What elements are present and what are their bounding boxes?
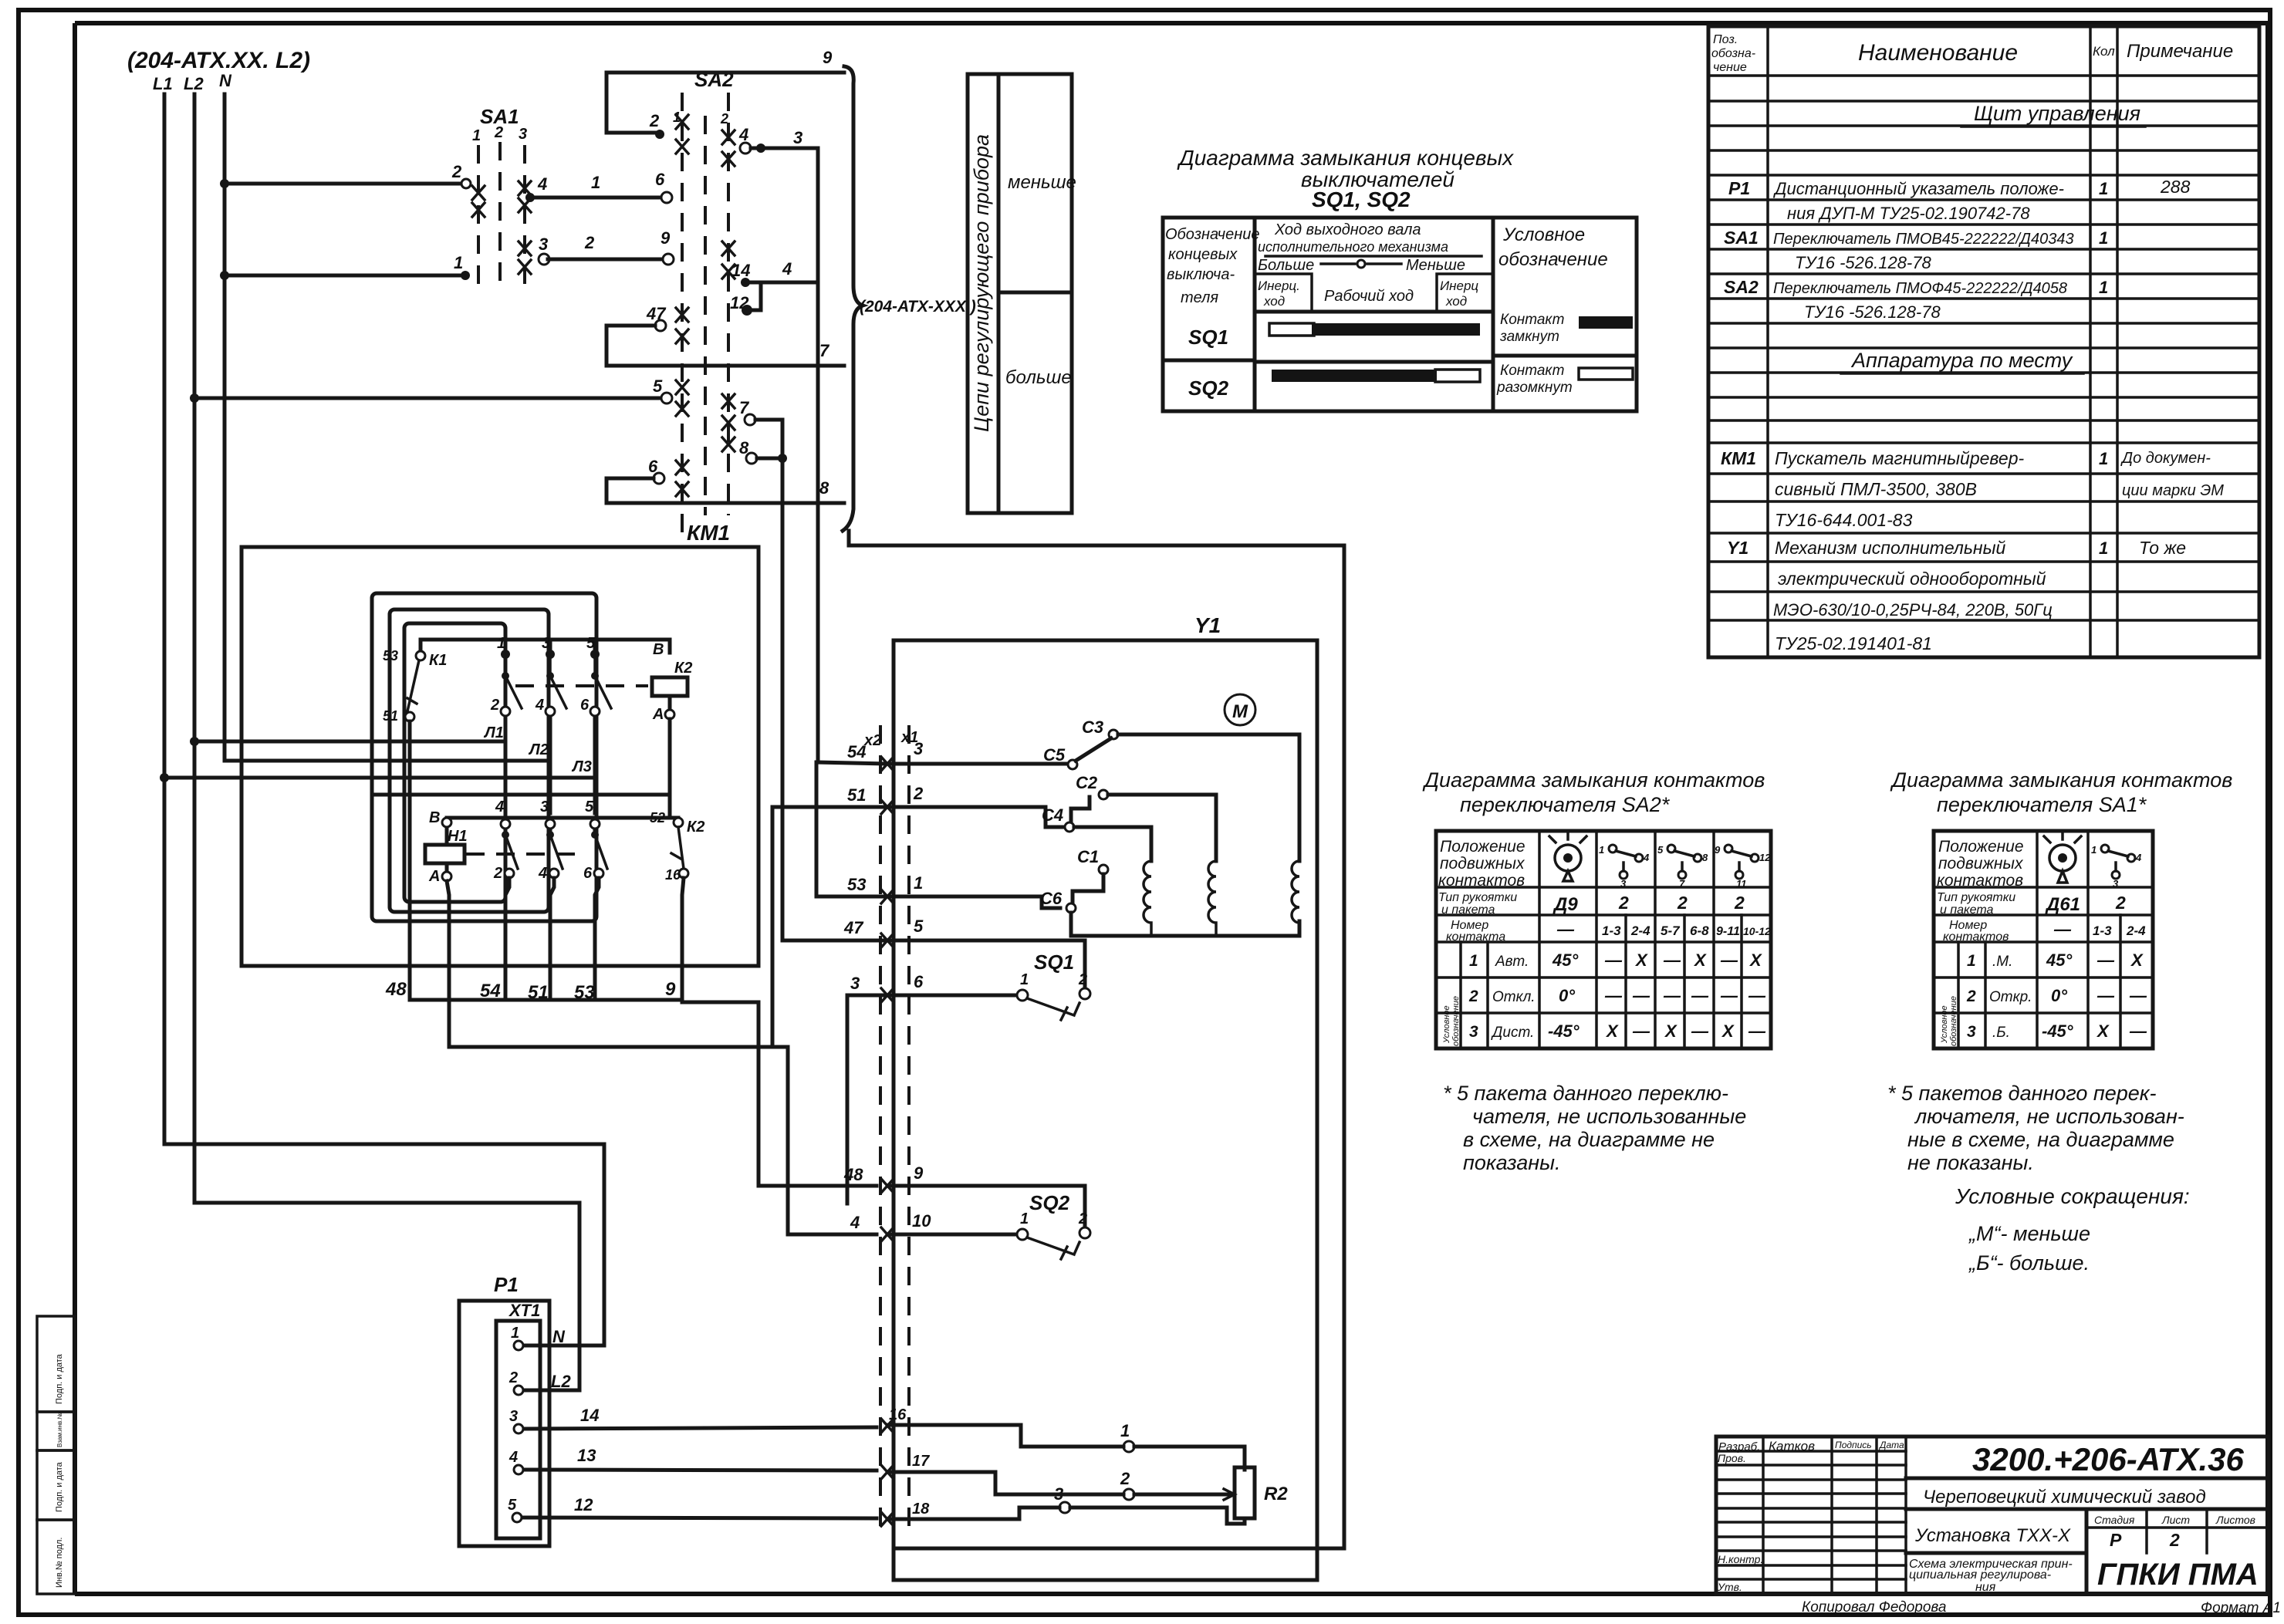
wire 14 from P1:3	[524, 1406, 1123, 1447]
svg-text:С1: С1	[1077, 847, 1099, 866]
svg-text:Больше: Больше	[1258, 257, 1314, 274]
svg-text:3: 3	[1469, 1023, 1478, 1041]
svg-text:2: 2	[451, 162, 462, 181]
terminal X1 row 48|9	[843, 1163, 1085, 1228]
svg-text:„Б“- больше.: „Б“- больше.	[1968, 1251, 2090, 1275]
svg-text:показаны.: показаны.	[1463, 1151, 1561, 1174]
note under SA2 table	[1443, 1082, 1746, 1174]
wire L1 feeder	[153, 74, 604, 1345]
svg-text:—: —	[1720, 950, 1738, 970]
motor terminal C6	[1040, 889, 1299, 936]
svg-text:1: 1	[472, 127, 481, 144]
svg-text:Условное: Условное	[1502, 225, 1585, 245]
svg-text:Диаграмма замыкания контакто: Диаграмма замыкания контактов	[1422, 768, 1765, 792]
svg-text:2: 2	[490, 697, 499, 714]
svg-text:переключателя SA2*: переключателя SA2*	[1460, 793, 1671, 816]
svg-text:контактов: контактов	[1937, 872, 2023, 890]
svg-text:2: 2	[2169, 1530, 2180, 1550]
svg-text:Тип рукоятки: Тип рукоятки	[1438, 891, 1517, 904]
svg-text:2-4: 2-4	[1630, 923, 1650, 938]
svg-text:С5: С5	[1043, 745, 1066, 765]
wire upper A column to lower bus	[372, 719, 670, 818]
terminal X1 row 53|1	[816, 762, 1060, 908]
svg-text:2: 2	[1078, 1210, 1087, 1227]
svg-text:2: 2	[1468, 988, 1478, 1005]
motor terminal C5	[1043, 738, 1111, 769]
wire L2 feeder	[184, 74, 579, 1390]
svg-text:7: 7	[1679, 878, 1685, 890]
svg-text:—: —	[1720, 986, 1738, 1005]
svg-text:подвижных: подвижных	[1938, 855, 2024, 873]
svg-text:51: 51	[847, 785, 866, 805]
svg-text:Контакт: Контакт	[1500, 363, 1564, 379]
svg-text:1: 1	[1120, 1421, 1130, 1440]
svg-text:1-3: 1-3	[2093, 923, 2112, 938]
svg-text:больше: больше	[1005, 367, 1072, 388]
svg-text:3: 3	[1967, 1023, 1976, 1041]
motor terminal C1	[1073, 847, 1108, 903]
svg-text:сивный ПМЛ-3500, 380В: сивный ПМЛ-3500, 380В	[1775, 479, 1977, 499]
svg-text:3: 3	[509, 1408, 518, 1425]
contact closure diagram table SA2	[1422, 768, 1771, 1048]
svg-text:лючателя, не использован-: лючателя, не использован-	[1914, 1105, 2184, 1128]
resistor R2	[1054, 1421, 1288, 1524]
svg-text:не показаны.: не показаны.	[1907, 1151, 2034, 1174]
svg-text:—: —	[1632, 1021, 1650, 1041]
auxiliary contact K2 (lower right)	[650, 810, 704, 883]
svg-text:и пакета: и пакета	[1940, 903, 1993, 917]
svg-text:2-4: 2-4	[2126, 923, 2146, 938]
svg-text:Н.контр.: Н.контр.	[1718, 1553, 1763, 1565]
wire node 7 line to bracket	[606, 341, 844, 366]
svg-text:3: 3	[542, 635, 550, 652]
svg-text:в схеме, на диаграмме не: в схеме, на диаграмме не	[1463, 1128, 1715, 1151]
svg-text:Х: Х	[2096, 1021, 2110, 1041]
svg-text:1: 1	[914, 873, 923, 893]
svg-text:Поз.: Поз.	[1713, 33, 1738, 46]
svg-text:—: —	[2096, 950, 2115, 970]
svg-text:5: 5	[508, 1497, 517, 1514]
svg-text:А: А	[652, 706, 664, 723]
wire 54 route	[449, 1047, 877, 1234]
bracket (204-ATX-XXX)	[843, 66, 976, 531]
svg-text:исполнительного механизма: исполнительного механизма	[1258, 239, 1448, 255]
svg-text:5-7: 5-7	[1661, 923, 1681, 938]
wire net 8 long run to Y1 bottom	[849, 531, 1344, 1548]
motor winding 1	[1144, 861, 1216, 936]
svg-text:8: 8	[819, 478, 829, 498]
svg-text:.Б.: .Б.	[1992, 1025, 2010, 1041]
svg-text:L1: L1	[153, 74, 173, 93]
wire L2 phase into KM1 (node Л2)	[225, 718, 550, 813]
left margin stamp boxes	[37, 1316, 75, 1594]
svg-text:5: 5	[1657, 844, 1664, 856]
svg-text:18: 18	[912, 1501, 930, 1518]
svg-text:1: 1	[1020, 1210, 1029, 1227]
svg-text:Утв.: Утв.	[1717, 1581, 1742, 1593]
wire node 47 contact loop	[606, 304, 667, 366]
svg-text:Установка ТХХ-Х: Установка ТХХ-Х	[1914, 1525, 2071, 1546]
svg-text:Механизм исполнительный: Механизм исполнительный	[1775, 538, 2006, 558]
svg-text:Подп. и дата: Подп. и дата	[55, 1461, 64, 1512]
svg-text:2: 2	[1677, 893, 1688, 913]
svg-text:12: 12	[574, 1495, 593, 1514]
svg-text:КМ1: КМ1	[687, 521, 730, 545]
svg-text:ния: ния	[1975, 1581, 1996, 1594]
svg-text:1: 1	[1020, 971, 1029, 988]
svg-text:Тип рукоятки: Тип рукоятки	[1937, 891, 2015, 904]
svg-text:—: —	[2053, 920, 2072, 939]
motor terminal C3	[1082, 717, 1299, 861]
svg-text:В: В	[653, 641, 664, 658]
wire node 6 contact loop	[606, 457, 664, 503]
svg-text:SQ2: SQ2	[1029, 1191, 1070, 1214]
svg-text:Условное: Условное	[1940, 1005, 1949, 1044]
svg-text:6: 6	[914, 972, 924, 991]
svg-text:„М“- меньше: „М“- меньше	[1968, 1222, 2090, 1245]
wire 13 from P1:4	[524, 1446, 1123, 1494]
svg-text:Листов: Листов	[2215, 1514, 2255, 1526]
svg-text:ход: ход	[1445, 294, 1467, 309]
regulator circuits box (Цепи регулирующего прибора)	[968, 74, 1076, 513]
svg-text:С6: С6	[1040, 889, 1063, 908]
svg-text:4: 4	[535, 697, 544, 714]
svg-text:Л3: Л3	[571, 758, 592, 775]
svg-text:2: 2	[494, 124, 503, 141]
svg-text:Положение: Положение	[1938, 838, 2024, 856]
svg-text:12: 12	[1759, 852, 1771, 863]
dashed linkage upper group	[515, 684, 648, 687]
svg-text:* 5 пакетов данного перек-: * 5 пакетов данного перек-	[1887, 1082, 2157, 1105]
svg-text:10-12: 10-12	[1743, 925, 1771, 937]
svg-text:9-11: 9-11	[1716, 925, 1740, 938]
svg-text:Y1: Y1	[1194, 613, 1221, 637]
svg-text:SA1: SA1	[1724, 228, 1759, 248]
coil K2 (upper right)	[652, 641, 692, 723]
svg-text:5: 5	[653, 376, 663, 396]
svg-text:(204-АТХ-ХХХ ): (204-АТХ-ХХХ )	[860, 298, 976, 316]
svg-text:1: 1	[591, 173, 600, 192]
svg-text:ХТ1: ХТ1	[508, 1301, 540, 1320]
svg-text:Условные сокращения:: Условные сокращения:	[1955, 1184, 2190, 1208]
svg-text:1: 1	[2099, 539, 2108, 558]
svg-text:Х: Х	[1721, 1021, 1735, 1041]
svg-text:14: 14	[580, 1406, 599, 1425]
footer annotations	[1802, 1599, 2281, 1616]
svg-text:—: —	[1663, 950, 1681, 970]
svg-text:Подпись: Подпись	[1835, 1440, 1872, 1450]
svg-text:Наименование: Наименование	[1858, 40, 2018, 66]
svg-text:16: 16	[889, 1406, 907, 1423]
svg-text:Примечание: Примечание	[2127, 41, 2233, 62]
wire SA1 pin4 to SA2 pin6	[525, 170, 672, 203]
svg-text:7: 7	[819, 341, 830, 360]
svg-text:контакта: контакта	[1446, 930, 1505, 944]
svg-text:L2: L2	[551, 1372, 571, 1391]
motor winding 2	[1208, 861, 1216, 936]
svg-text:4: 4	[2135, 852, 2142, 863]
wire K2 column down	[682, 878, 684, 1002]
svg-text:Цепи регулирующего прибора: Цепи регулирующего прибора	[970, 134, 993, 432]
svg-text:10: 10	[912, 1211, 931, 1231]
svg-text:1: 1	[2099, 228, 2108, 248]
svg-text:Пров.: Пров.	[1718, 1452, 1746, 1464]
svg-text:6: 6	[655, 170, 665, 189]
svg-text:разомкнут: разомкнут	[1496, 380, 1573, 396]
svg-text:Условное: Условное	[1442, 1005, 1451, 1044]
limit switch SQ2	[1017, 1191, 1090, 1259]
svg-text:контактов: контактов	[1438, 872, 1525, 890]
svg-text:Х: Х	[2130, 950, 2144, 970]
svg-text:16: 16	[665, 867, 681, 883]
svg-text:Х: Х	[1664, 1021, 1678, 1041]
svg-text:С3: С3	[1082, 717, 1103, 737]
svg-text:К2: К2	[687, 819, 704, 836]
svg-text:теля: теля	[1181, 289, 1218, 306]
svg-text:1: 1	[2091, 844, 2096, 856]
svg-text:4: 4	[782, 259, 792, 279]
svg-text:Лист: Лист	[2161, 1514, 2190, 1526]
main contact poles lower group	[493, 798, 607, 1000]
svg-text:Х: Х	[1605, 1021, 1619, 1041]
wire node 4 from SA2 pins 14/12	[730, 259, 818, 316]
svg-text:3: 3	[793, 128, 802, 147]
svg-text:До докумен-: До докумен-	[2120, 450, 2211, 467]
svg-text:Подп. и дата: Подп. и дата	[55, 1353, 64, 1404]
svg-text:Переключатель ПМОФ45-222222/Д4: Переключатель ПМОФ45-222222/Д4058	[1773, 280, 2067, 297]
svg-text:ТУ16 -526.128-78: ТУ16 -526.128-78	[1795, 253, 1931, 272]
svg-text:чение: чение	[1713, 61, 1747, 74]
wire 9 route to terminal X1:9	[682, 1002, 877, 1186]
svg-text:—: —	[1556, 920, 1575, 939]
svg-text:ции марки ЭМ: ции марки ЭМ	[2122, 482, 2224, 499]
switch SA2 dashed contact columns	[673, 68, 735, 540]
svg-text:4: 4	[495, 798, 504, 815]
svg-text:4: 4	[538, 865, 547, 882]
svg-text:и пакета: и пакета	[1441, 903, 1495, 917]
contact closure diagram table SA1	[1890, 768, 2232, 1048]
svg-text:К1: К1	[429, 652, 447, 669]
svg-text:51: 51	[383, 708, 398, 724]
svg-text:А: А	[428, 868, 440, 885]
svg-text:8: 8	[1702, 852, 1708, 863]
svg-text:—: —	[2129, 1021, 2147, 1041]
legend Условные сокращения	[1955, 1184, 2190, 1275]
svg-text:ципиальная регулирова-: ципиальная регулирова-	[1909, 1568, 2051, 1582]
svg-text:SQ1: SQ1	[1034, 950, 1074, 974]
svg-text:9: 9	[914, 1163, 924, 1183]
svg-text:2: 2	[913, 784, 924, 803]
svg-text:обозначение: обозначение	[1498, 249, 1608, 270]
wire L3 phase into KM1 (node Л3)	[164, 718, 595, 813]
wire 51 route	[771, 807, 775, 1047]
svg-text:х2: х2	[863, 732, 881, 749]
svg-text:.М.: .М.	[1992, 954, 2012, 970]
wire node 3 from SA2 pin4 down column	[738, 125, 818, 762]
junction dots on feeders	[220, 179, 229, 188]
svg-text:48: 48	[843, 1165, 863, 1184]
svg-text:1: 1	[1599, 844, 1604, 856]
svg-text:1: 1	[497, 635, 505, 652]
svg-text:9: 9	[661, 228, 671, 248]
svg-text:Y1: Y1	[1727, 538, 1748, 558]
svg-text:* 5 пакета данного переклю-: * 5 пакета данного переклю-	[1443, 1082, 1728, 1105]
svg-text:Пускатель магнитныйревер-: Пускатель магнитныйревер-	[1775, 448, 2025, 468]
svg-text:5: 5	[585, 798, 594, 815]
wire K1 column down to bus 48	[410, 721, 417, 1000]
svg-text:3: 3	[914, 739, 923, 758]
svg-text:То же: То же	[2139, 538, 2186, 558]
svg-text:Авт.: Авт.	[1495, 954, 1529, 970]
svg-text:54: 54	[847, 742, 866, 761]
svg-text:2: 2	[1078, 971, 1087, 988]
svg-text:3: 3	[850, 974, 860, 993]
KM1 routing loop A	[372, 593, 596, 921]
svg-text:9: 9	[1715, 844, 1721, 856]
svg-text:1: 1	[1469, 952, 1478, 970]
svg-text:1: 1	[511, 1325, 519, 1342]
svg-text:3: 3	[540, 798, 549, 815]
svg-text:Формат А1: Формат А1	[2201, 1600, 2281, 1616]
svg-text:Откл.: Откл.	[1492, 989, 1536, 1005]
KM1 upper bus	[421, 640, 670, 653]
svg-text:—: —	[2129, 986, 2147, 1005]
svg-text:концевых: концевых	[1168, 246, 1238, 263]
svg-text:45°: 45°	[1552, 950, 1578, 970]
svg-text:2: 2	[508, 1369, 518, 1386]
svg-text:3: 3	[519, 126, 527, 143]
svg-text:2: 2	[1120, 1469, 1130, 1488]
svg-text:Дата: Дата	[1878, 1440, 1904, 1450]
svg-text:Переключатель ПМОВ45-222222/Д4: Переключатель ПМОВ45-222222/Д40343	[1773, 231, 2074, 248]
svg-text:Р: Р	[2110, 1530, 2122, 1550]
svg-text:Х: Х	[1693, 950, 1707, 970]
svg-text:1: 1	[2099, 449, 2108, 468]
svg-text:Инерц: Инерц	[1440, 279, 1478, 293]
svg-text:4: 4	[850, 1213, 860, 1232]
svg-text:3: 3	[2113, 878, 2119, 890]
svg-text:С4: С4	[1042, 805, 1063, 825]
KM1 routing loop C	[404, 623, 505, 902]
wire 12 from P1:5	[522, 1495, 1059, 1526]
main contact poles 1-2 3-4 5-6 (upper group)	[490, 635, 611, 718]
svg-text:С2: С2	[1076, 773, 1098, 792]
svg-text:1-3: 1-3	[1602, 923, 1621, 938]
svg-text:4: 4	[537, 174, 547, 194]
note under SA1 table	[1887, 1082, 2184, 1174]
svg-text:чателя, не использованные: чателя, не использованные	[1472, 1105, 1746, 1128]
svg-text:R2: R2	[1264, 1484, 1288, 1504]
svg-text:—: —	[2096, 986, 2115, 1005]
parts list table	[1708, 26, 2259, 657]
svg-text:КМ1: КМ1	[1721, 448, 1756, 468]
wire N to SA1 pin2	[225, 162, 471, 188]
KM1 lower bus	[447, 818, 678, 842]
svg-text:В: В	[429, 809, 440, 826]
svg-text:Д61: Д61	[2045, 894, 2080, 915]
motor terminal C4	[1042, 805, 1151, 861]
svg-text:SQ1: SQ1	[1188, 326, 1228, 349]
svg-text:-45°: -45°	[1548, 1021, 1580, 1041]
svg-text:Рабочий ход: Рабочий ход	[1324, 288, 1414, 305]
svg-text:1: 1	[454, 253, 463, 272]
dashed linkage lower group	[466, 853, 583, 856]
svg-text:обозначение: обозначение	[1451, 996, 1461, 1046]
svg-text:К2: К2	[674, 660, 692, 677]
svg-text:Л1: Л1	[483, 724, 504, 741]
svg-text:4: 4	[1643, 852, 1650, 863]
svg-text:6: 6	[583, 865, 593, 882]
svg-text:МЭО-630/10-0,25РЧ-84, 220В, 50: МЭО-630/10-0,25РЧ-84, 220В, 50Гц	[1773, 600, 2053, 620]
motor terminal C2	[1071, 773, 1216, 861]
svg-text:выключа-: выключа-	[1167, 266, 1235, 283]
svg-text:Н1: Н1	[448, 828, 468, 845]
wire N feeder	[219, 71, 232, 761]
svg-text:9: 9	[665, 979, 676, 1000]
svg-text:переключателя SA1*: переключателя SA1*	[1937, 793, 2147, 816]
wire node 5 from L2	[194, 376, 672, 403]
svg-text:52: 52	[650, 810, 665, 826]
svg-text:Откр.: Откр.	[1989, 989, 2032, 1005]
contactor KM1 box	[242, 521, 759, 966]
svg-text:(204-АТХ.ХХ. L2): (204-АТХ.ХХ. L2)	[127, 48, 310, 73]
svg-text:—: —	[1604, 950, 1623, 970]
svg-text:48: 48	[385, 979, 407, 1000]
svg-text:—: —	[1691, 1021, 1709, 1041]
svg-text:1: 1	[2099, 278, 2108, 297]
svg-text:Стадия: Стадия	[2094, 1514, 2135, 1526]
svg-text:2: 2	[1618, 893, 1629, 913]
svg-text:контактов: контактов	[1943, 930, 2009, 944]
svg-text:11: 11	[1736, 878, 1747, 890]
svg-text:ход: ход	[1263, 294, 1285, 309]
svg-text:замкнут: замкнут	[1499, 329, 1559, 345]
motor M circle	[1225, 694, 1255, 725]
wire N to SA1 pin1	[225, 253, 470, 280]
terminal X1 row 51|2	[772, 784, 1065, 827]
svg-text:N: N	[552, 1327, 566, 1346]
svg-text:Положение: Положение	[1440, 838, 1525, 856]
svg-text:Взам.инв.№: Взам.инв.№	[56, 1412, 63, 1447]
svg-text:Инерц.: Инерц.	[1258, 279, 1300, 293]
svg-text:Р1: Р1	[494, 1273, 519, 1296]
svg-text:Л2: Л2	[528, 741, 549, 758]
svg-text:—: —	[1748, 986, 1766, 1005]
svg-text:Контакт: Контакт	[1500, 312, 1564, 328]
svg-text:47: 47	[843, 918, 864, 937]
svg-text:13: 13	[577, 1446, 596, 1465]
svg-text:-45°: -45°	[2042, 1021, 2073, 1041]
svg-text:2: 2	[584, 233, 595, 252]
svg-text:Диаграмма замыкания контактов: Диаграмма замыкания контактов	[1890, 768, 2232, 792]
terminal X1 row 47|5	[782, 917, 1085, 989]
svg-text:53: 53	[847, 875, 866, 894]
auxiliary contact K1	[383, 648, 447, 724]
svg-text:1: 1	[1967, 952, 1976, 970]
svg-text:Аппаратура по месту: Аппаратура по месту	[1850, 349, 2073, 372]
svg-text:ТУ16 -526.128-78: ТУ16 -526.128-78	[1804, 302, 1941, 322]
svg-text:Череповецкий химический заво: Череповецкий химический завод	[1923, 1487, 2206, 1508]
svg-text:Щит управления: Щит управления	[1974, 102, 2140, 125]
svg-text:Дистанционный указатель положе: Дистанционный указатель положе-	[1772, 179, 2064, 198]
wire node 9 loop to bracket	[606, 48, 844, 139]
position indicator P1	[459, 1273, 549, 1546]
svg-text:электрический однооборотный: электрический однооборотный	[1778, 569, 2046, 589]
svg-text:45°: 45°	[2046, 950, 2072, 970]
wire L1 phase into KM1 (node Л1)	[194, 718, 505, 813]
svg-text:SQ1, SQ2: SQ1, SQ2	[1312, 187, 1411, 211]
svg-text:Диаграмма замыкания концевых: Диаграмма замыкания концевых	[1177, 146, 1514, 170]
